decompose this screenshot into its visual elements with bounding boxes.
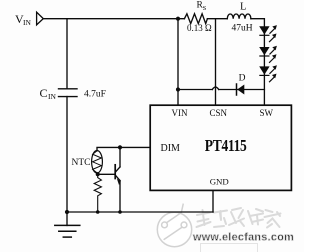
watermark text dianzifashaoyou	[197, 208, 281, 228]
node junction emitter bottom	[118, 210, 122, 214]
wire freewheel diode row (right part)	[219, 89, 265, 91]
op IC box PT4115	[150, 105, 291, 190]
svg-text:DIM: DIM	[161, 143, 181, 154]
svg-text:CSN: CSN	[210, 108, 228, 118]
svg-text:0.13 Ω: 0.13 Ω	[187, 23, 212, 33]
svg-text:NTC: NTC	[72, 158, 91, 168]
diode D	[237, 84, 245, 95]
wire hop over CSN line	[212, 87, 218, 89]
node junction resistor bottom	[96, 210, 100, 214]
wire GND pin vertical	[212, 191, 214, 212]
svg-text:SW: SW	[260, 108, 274, 118]
resistor Rs	[184, 14, 207, 24]
svg-text:PT4115: PT4115	[205, 136, 247, 155]
transistor Q1	[115, 147, 121, 212]
node junction diode wire at VIN column	[176, 87, 180, 91]
svg-text:L: L	[240, 1, 246, 12]
label Rs	[197, 1, 207, 12]
watermark faint box	[201, 244, 258, 252]
svg-text:47uH: 47uH	[232, 24, 253, 34]
watermark logo circle	[157, 204, 191, 247]
wire top rail from VIN port to Rs	[43, 18, 184, 20]
wire VIN pin vertical	[177, 19, 179, 105]
svg-text:D: D	[239, 74, 246, 84]
svg-text:VIN: VIN	[172, 108, 188, 118]
wire transistor base	[98, 173, 115, 175]
wire NTC top to DIM pin	[97, 147, 150, 150]
LED D1	[259, 25, 277, 42]
svg-text:IN: IN	[48, 92, 56, 101]
wire L to LED string corner	[251, 19, 265, 105]
label VIN	[15, 12, 31, 27]
wire freewheel diode row (left part)	[178, 89, 212, 91]
capacitor CIN	[59, 89, 78, 97]
wire CIN tap vertical (top)	[66, 19, 68, 89]
svg-text:C: C	[40, 86, 48, 100]
resistor R1 below NTC	[94, 173, 101, 212]
svg-text:IN: IN	[23, 18, 31, 27]
wire CIN to ground	[66, 97, 68, 226]
wire bottom rail	[67, 211, 213, 213]
inductor L	[227, 14, 251, 19]
node junction DIM wire	[118, 145, 122, 149]
label CIN	[40, 86, 57, 101]
input port symbol VIN	[37, 12, 44, 25]
svg-text:S: S	[203, 5, 207, 12]
node junction at VIN column	[176, 17, 180, 21]
LED D2	[259, 46, 277, 63]
wire CSN pin vertical	[215, 19, 217, 105]
thermistor NTC	[92, 151, 103, 174]
svg-text:4.7uF: 4.7uF	[84, 89, 106, 99]
wire Rs to CSN tap to L	[207, 18, 227, 20]
ground symbol	[55, 225, 80, 237]
LED D3	[259, 65, 277, 82]
node junction bottom-left	[65, 210, 69, 214]
svg-text:GND: GND	[210, 176, 229, 186]
node junction NTC bottom / base	[96, 172, 100, 176]
svg-text:www.elecfans.com: www.elecfans.com	[192, 231, 294, 243]
